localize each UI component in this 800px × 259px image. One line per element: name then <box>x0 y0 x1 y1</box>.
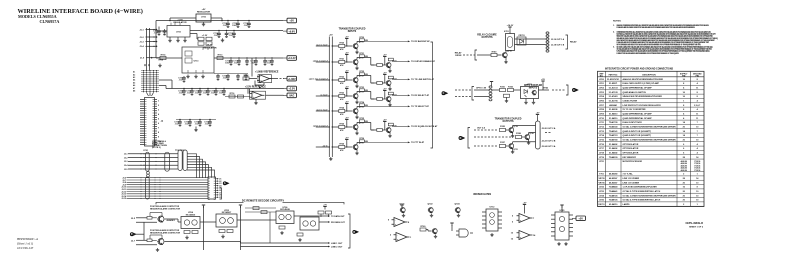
svg-text:OCTAL D-TYPE NONINVERTING LATC: OCTAL D-TYPE NONINVERTING LATCH <box>623 199 661 202</box>
svg-text:OPTOISOLATOR: OPTOISOLATOR <box>623 147 639 150</box>
power tap row 4 second stage <box>383 91 386 94</box>
wire into reference <box>252 78 257 80</box>
unused op-amp U709-D <box>394 233 410 242</box>
connector pin field vertical wires <box>143 70 145 93</box>
svg-text:OCTAL 3-STATE NONINVERTING BUF: OCTAL 3-STATE NONINVERTING BUFFER/LINE D… <box>623 194 677 197</box>
svg-text:2,3,6,7: 2,3,6,7 <box>694 105 701 107</box>
svg-text:51-84692: 51-84692 <box>609 143 618 146</box>
svg-text:+5V: +5V <box>536 113 540 115</box>
wire Q721A collector to connector <box>512 142 514 144</box>
opto input dashed wires <box>455 89 472 91</box>
svg-text:A3: A3 <box>133 76 135 79</box>
svg-text:REGULATOR: REGULATOR <box>204 46 217 49</box>
wire regulator row to flag <box>190 30 283 32</box>
svg-text:47K: 47K <box>340 98 344 101</box>
capacitor C716 <box>229 59 233 65</box>
node H big dot decode left <box>130 232 137 236</box>
components below U705 <box>219 230 225 233</box>
ferrite pill E703 <box>146 177 150 199</box>
power tap above R721 <box>345 55 348 58</box>
wire bypass rail to +2.5V flag <box>248 88 284 90</box>
resistor R732 collector <box>359 73 364 76</box>
capacitor pair between groups <box>147 171 150 177</box>
ground C714 C715 <box>221 38 224 42</box>
svg-text:65-84310: 65-84310 <box>609 203 618 206</box>
svg-text:DC REMOTE DECODE CIRCUITRY: DC REMOTE DECODE CIRCUITRY <box>242 199 284 203</box>
svg-text:6: 6 <box>158 123 159 125</box>
resistor R750 cluster below U704 <box>184 231 190 234</box>
svg-text:Q720: Q720 <box>529 133 534 135</box>
svg-text:Q722: Q722 <box>427 203 433 205</box>
svg-text:RELAY CLOSURE: RELAY CLOSURE <box>477 33 497 36</box>
svg-text:REGULATOR: REGULATOR <box>197 10 210 13</box>
svg-text:OCTAL 3-STATE NONINVERTING BUF: OCTAL 3-STATE NONINVERTING BUFFER/LINE D… <box>623 126 677 129</box>
row 3 link wire <box>357 74 371 76</box>
svg-text:TO PTT IN AT: TO PTT IN AT <box>411 141 425 144</box>
resistor R743 <box>377 97 383 100</box>
svg-text:17,38,56: 17,38,56 <box>694 170 700 172</box>
svg-text:TDA5740: TDA5740 <box>609 139 618 142</box>
wire relay drive <box>477 54 491 56</box>
svg-text:TDA8441: TDA8441 <box>609 190 618 193</box>
unused IC section U712 <box>486 209 498 231</box>
svg-text:+2.5V: +2.5V <box>288 88 295 91</box>
svg-text:KEY MEMORY: KEY MEMORY <box>623 157 637 159</box>
svg-text:MC145026: MC145026 <box>186 213 195 216</box>
resistor R752 collector 2 <box>388 76 393 79</box>
op-amp U702-C 2.5V reference <box>250 91 266 99</box>
svg-text:TDA5723: TDA5723 <box>609 134 618 137</box>
table microprocessor tall row <box>598 171 705 173</box>
wire bypass row riser <box>247 89 249 94</box>
node E big dot opto <box>442 91 449 95</box>
svg-text:R733: R733 <box>359 87 364 89</box>
wire 2.5V output <box>266 94 284 96</box>
svg-text:(NOTE 2): (NOTE 2) <box>152 147 161 149</box>
unused transistor Q721 <box>400 207 405 212</box>
resistor R746 <box>516 135 522 138</box>
svg-text:TDA8330: TDA8330 <box>609 156 618 159</box>
unused op-amp U710-B <box>517 231 533 240</box>
wire relay coil to transistor <box>505 51 507 53</box>
svg-text:A2: A2 <box>133 73 135 76</box>
svg-text:Q713: Q713 <box>359 92 364 94</box>
svg-text:OUTPUTS: OUTPUTS <box>482 37 493 39</box>
svg-text:+5V: +5V <box>541 79 545 81</box>
capacitor C719 <box>254 59 258 65</box>
ground Q715 <box>355 131 358 135</box>
svg-text:51-84692: 51-84692 <box>609 152 618 155</box>
row 6 output wire <box>389 125 391 128</box>
vertical link wire decode outputs <box>269 212 271 243</box>
resistor R725 <box>339 125 345 128</box>
resistor R714 <box>160 56 166 59</box>
connector J3 tall box <box>145 98 155 147</box>
transistor Q719 <box>508 127 513 132</box>
U711 top pins <box>170 23 172 26</box>
nested corner fanout wires <box>187 154 215 178</box>
resistor R731 collector <box>359 55 364 58</box>
resistor R755 collector 2 <box>388 123 393 126</box>
svg-text:R726: R726 <box>339 144 344 146</box>
bypass capacitor row C722-C727 <box>166 88 248 90</box>
svg-text:TX DATA OUT: TX DATA OUT <box>331 215 345 218</box>
svg-text:R736: R736 <box>359 138 364 140</box>
wire alarm2 bus <box>165 241 241 243</box>
transistor Q712 <box>353 77 358 82</box>
ground regulator <box>186 75 189 79</box>
capacitor C711 <box>236 22 240 28</box>
transistor Q720 <box>524 134 529 139</box>
svg-text:TDA1705: TDA1705 <box>609 121 618 124</box>
bracket relay outputs <box>566 35 568 49</box>
op-amp U702-B reference buffer <box>258 75 272 83</box>
line transformer T701 <box>178 150 182 171</box>
unused transistor Q724 <box>455 207 460 212</box>
power tap above R720 <box>345 39 348 42</box>
svg-text:U709: U709 <box>527 84 533 86</box>
svg-text:Q710: Q710 <box>359 42 364 44</box>
power +5V decode 2 <box>323 205 327 210</box>
resistor R723 <box>339 94 345 97</box>
svg-text:+14.2V: +14.2V <box>507 24 514 27</box>
svg-text:TO RX SQUELCH MUTE AT: TO RX SQUELCH MUTE AT <box>411 125 438 128</box>
svg-text:aux rx mute: aux rx mute <box>316 43 328 46</box>
power tap above R724 <box>345 104 348 107</box>
svg-text:17,38,56: 17,38,56 <box>694 168 700 170</box>
net flag +1.86V <box>283 76 297 81</box>
unused transistor Q722 <box>428 207 433 212</box>
svg-text:J3-15: J3-15 <box>121 198 126 200</box>
svg-text:UNUSED GATES: UNUSED GATES <box>473 193 492 196</box>
svg-text:SINGLE MULTIPLEXER/DEMULTIPLEX: SINGLE MULTIPLEXER/DEMULTIPLEXER <box>623 96 663 98</box>
svg-text:QUAD ANALOG SWITCH: QUAD ANALOG SWITCH <box>623 91 647 94</box>
line transformer T702 <box>183 150 187 171</box>
power +5V outputs <box>536 113 540 118</box>
svg-text:J2-16 OUT 1 A: J2-16 OUT 1 A <box>551 38 565 41</box>
wire reference output <box>270 78 277 80</box>
svg-text:rx mute: rx mute <box>320 93 328 96</box>
svg-text:TDA8726: TDA8726 <box>609 199 618 202</box>
alarm 1 feedback loop <box>161 213 163 216</box>
svg-text:9: 9 <box>158 137 159 139</box>
resistor R722 <box>339 78 345 81</box>
svg-text:+14.2V: +14.2V <box>206 44 213 47</box>
capacitor C714 <box>217 32 221 38</box>
svg-text:-: - <box>520 215 521 218</box>
output dashes right <box>545 132 552 134</box>
transistor Q731 alarm 2 detector <box>147 239 152 242</box>
input row 2 wire from connector <box>316 61 330 63</box>
bus bottom ground <box>329 157 332 161</box>
svg-text:51-85970C01: 51-85970C01 <box>607 79 620 81</box>
svg-text:TRANSISTOR COUPLED: TRANSISTOR COUPLED <box>339 28 366 31</box>
power tap row 6 second stage <box>383 122 386 125</box>
vertical rail decode 1 <box>203 206 205 250</box>
resistor R742 <box>377 81 383 84</box>
svg-text:47K: 47K <box>340 113 344 116</box>
net flag +2.5V <box>283 86 297 91</box>
transistor Q711 <box>353 59 358 64</box>
table outer frame <box>598 71 705 206</box>
svg-text:R740: R740 <box>492 50 497 53</box>
+5V regulator U710 <box>196 14 211 22</box>
svg-text:D INDUCTOR VALUES ARE IN MICRO: D INDUCTOR VALUES ARE IN MICROHENRIES FO… <box>617 52 679 55</box>
ground Q721 <box>388 69 391 73</box>
row 1 output wire <box>357 40 363 42</box>
svg-text:CODEC FILTER: CODEC FILTER <box>623 101 638 103</box>
svg-text:CLN6957A: CLN6957A <box>40 19 60 24</box>
resistor R716 R717 row <box>225 96 250 98</box>
row 3 output wire <box>389 78 391 81</box>
svg-text:aux tx mute: aux tx mute <box>316 108 328 111</box>
svg-text:51-84692: 51-84692 <box>609 147 618 150</box>
power to relay <box>507 24 514 30</box>
svg-text:J3-1: J3-1 <box>124 154 128 156</box>
svg-text:7: 7 <box>158 128 159 130</box>
wire R752 into U707 <box>320 214 322 217</box>
capacitor C715 <box>225 32 229 38</box>
svg-text:DRIVE: DRIVE <box>455 55 462 57</box>
svg-text:ALARM 1: ALARM 1 <box>167 219 177 222</box>
svg-text:U715: U715 <box>560 210 566 212</box>
ferrite pill E702 <box>165 152 170 171</box>
transistor Q713 <box>353 93 358 98</box>
svg-text:3: 3 <box>158 110 159 112</box>
svg-text:51-4C103: 51-4C103 <box>609 87 619 90</box>
svg-text:48-82567: 48-82567 <box>609 177 618 180</box>
row 2 link wire <box>357 56 371 58</box>
svg-text:OPTO 1 IN: OPTO 1 IN <box>476 88 487 90</box>
svg-text:R760: R760 <box>421 226 427 228</box>
svg-text:R723: R723 <box>339 93 344 95</box>
svg-text:TDA5140: TDA5140 <box>609 126 618 129</box>
svg-text:47K: 47K <box>340 149 344 152</box>
svg-text:spare aux rx mute 2: spare aux rx mute 2 <box>309 77 329 80</box>
svg-text:QUAD 2-INPUT OR (SCHMITT): QUAD 2-INPUT OR (SCHMITT) <box>623 134 652 137</box>
diode CR701 <box>517 37 526 45</box>
output row 2 dashed <box>474 136 513 138</box>
svg-text:DUAL CMOS SUPPLY (2 PER) OP AM: DUAL CMOS SUPPLY (2 PER) OP AMP <box>623 82 660 85</box>
input row 4 wire from connector <box>316 95 330 97</box>
capacitor C720 <box>182 76 186 82</box>
+9.6V regulator U711 <box>167 26 190 38</box>
row 2 output wire <box>389 60 391 63</box>
svg-text:QUAD DIFFERENTIAL OP AMP: QUAD DIFFERENTIAL OP AMP <box>623 117 653 120</box>
IC U704 decode <box>181 217 200 229</box>
unused transistor Q723 with resistor <box>420 228 426 231</box>
alarm 2 feedback loop <box>161 235 163 238</box>
bracket opto inputs <box>472 87 474 101</box>
net flag +9.6V <box>283 29 297 34</box>
audio pair wire group 2 <box>127 177 209 179</box>
resistor R724 <box>339 109 345 112</box>
svg-text:C: C <box>573 89 575 92</box>
capacitor C717 <box>237 59 241 65</box>
svg-text:LINE 2 OUT: LINE 2 OUT <box>331 247 343 249</box>
svg-text:47K: 47K <box>340 64 344 67</box>
resistor R735 collector <box>359 120 364 123</box>
svg-text:NO.: NO. <box>600 75 604 77</box>
ground below U704 <box>185 236 188 240</box>
transistor Q730 alarm 1 detector <box>147 217 152 220</box>
row 7 output wire <box>357 141 363 143</box>
input row 7 wire from connector <box>316 146 330 148</box>
svg-text:TO TX LINE SWITCH AT: TO TX LINE SWITCH AT <box>411 78 435 81</box>
svg-text:RX DATA OUT: RX DATA OUT <box>331 221 346 224</box>
opto ground <box>525 99 527 101</box>
svg-text:47K: 47K <box>340 48 344 51</box>
wire opto output <box>539 89 550 91</box>
svg-text:QUAD DIFFERENTIAL OP AMP: QUAD DIFFERENTIAL OP AMP <box>623 113 653 116</box>
svg-text:QUAD DIFFERENTIAL OP AMP: QUAD DIFFERENTIAL OP AMP <box>623 87 653 90</box>
wire Q720 collector to connector <box>528 133 530 135</box>
ground 2.5V divider <box>255 99 257 101</box>
svg-text:PART NO.: PART NO. <box>609 74 619 77</box>
resistor R741 <box>377 63 383 66</box>
svg-text:J2-24 OUT 3 A: J2-24 OUT 3 A <box>542 145 556 148</box>
ground unused U715 <box>557 242 560 246</box>
wire Q719 collector to connector <box>512 126 514 128</box>
node F big dot opto out <box>572 88 579 92</box>
svg-text:LINE 1.5V ZENER: LINE 1.5V ZENER <box>623 178 640 180</box>
ground Q713 <box>355 100 358 104</box>
transistor Q721A <box>508 143 513 148</box>
svg-text:HEPD39849C–A: HEPD39849C–A <box>16 237 38 241</box>
svg-text:J2-20 OUT 2 A: J2-20 OUT 2 A <box>542 127 556 130</box>
svg-text:48-82567: 48-82567 <box>609 181 618 184</box>
svg-text:A1: A1 <box>133 71 135 74</box>
svg-text:51-4C706: 51-4C706 <box>609 100 619 103</box>
row 4 link wire <box>357 90 371 92</box>
resistor R744 below <box>504 94 510 97</box>
svg-text:NEGATIVE ALARM 2 DETECTOR: NEGATIVE ALARM 2 DETECTOR <box>150 232 181 235</box>
svg-text:TDA8440: TDA8440 <box>609 186 618 189</box>
power +5V right of opto <box>541 79 545 84</box>
unused op-amp U710-A <box>517 214 533 223</box>
ground Q722 <box>388 87 391 91</box>
svg-text:A4: A4 <box>133 79 135 82</box>
svg-text:+5V: +5V <box>578 218 583 221</box>
resistor R741 <box>500 88 506 91</box>
ground Q721A <box>512 149 514 150</box>
svg-text:TO RX BACKUP AT: TO RX BACKUP AT <box>411 40 430 43</box>
transistor Q714 <box>353 108 358 113</box>
svg-text:J2-22 OUT 2 B: J2-22 OUT 2 B <box>542 141 556 143</box>
wire riser rail to op-amp <box>249 89 251 94</box>
net flag +14.2V <box>283 56 297 61</box>
power tap above R722 <box>345 73 348 76</box>
power tap above R723 <box>345 89 348 92</box>
svg-text:VR706: VR706 <box>598 182 605 184</box>
svg-text:R VALUES ARE IN OHMS CAPACITOR: R VALUES ARE IN OHMS CAPACITOR VALUES AR… <box>617 26 695 29</box>
ground Q723 <box>388 103 391 107</box>
ground Q716 <box>355 151 358 155</box>
ground Q712 <box>355 84 358 88</box>
svg-text:CEPS–39849–B: CEPS–39849–B <box>685 222 703 225</box>
interstage rows U705 to U706 <box>245 207 276 209</box>
svg-text:VR705: VR705 <box>598 178 605 180</box>
wire decode outputs <box>294 215 328 217</box>
capacitor C718 <box>245 59 249 65</box>
IC U706 decode <box>276 211 294 224</box>
ground alarm 2 op-amp <box>156 248 159 252</box>
svg-text:(Sheet 1 of 1): (Sheet 1 of 1) <box>17 242 33 246</box>
svg-text:Q712: Q712 <box>359 76 364 78</box>
unused IC section U715 <box>555 212 569 240</box>
wire regulator feed <box>158 27 160 30</box>
svg-text:+5V: +5V <box>329 34 333 36</box>
svg-text:MC145028: MC145028 <box>280 208 290 211</box>
svg-text:51-84510: 51-84510 <box>609 117 618 120</box>
wire opto feed <box>492 89 500 91</box>
svg-text:MC145027: MC145027 <box>222 211 231 214</box>
svg-text:DUAL D-INPUT NOR: DUAL D-INPUT NOR <box>623 121 643 124</box>
svg-text:RELAY: RELAY <box>570 41 577 44</box>
power tap row 3 second stage <box>383 75 386 78</box>
power tap row 2 second stage <box>383 57 386 60</box>
svg-text:+9.6V: +9.6V <box>288 30 295 33</box>
svg-text:10UF: 10UF <box>232 25 238 27</box>
wire riser from regulator input <box>155 21 157 59</box>
svg-text:OCTAL D-TYPE NONINVERTING LATC: OCTAL D-TYPE NONINVERTING LATCH <box>623 190 661 193</box>
svg-text:INPUTS: INPUTS <box>348 31 357 33</box>
svg-text:A7: A7 <box>133 87 135 90</box>
svg-text:51-80238: 51-80238 <box>609 109 618 111</box>
svg-text:LOW DROPOUT VOLTAGE REGULATOR: LOW DROPOUT VOLTAGE REGULATOR <box>623 104 662 107</box>
svg-text:+1.86V: +1.86V <box>288 78 296 81</box>
resistor R745 <box>377 128 383 131</box>
connector J3 pin stubs <box>140 99 145 101</box>
capacitor C715A <box>232 32 236 38</box>
svg-text:10UF: 10UF <box>225 63 231 65</box>
resistor R745 <box>500 128 506 131</box>
svg-text:DESCRIPTION: DESCRIPTION <box>642 75 656 77</box>
svg-text:51-4C105: 51-4C105 <box>609 91 619 94</box>
resistor R736 collector <box>359 140 364 143</box>
ground Q719 <box>512 133 514 134</box>
resistor R751 collector 2 <box>388 58 393 61</box>
svg-text:29: 29 <box>219 197 221 199</box>
relay drive transistor Q718 <box>502 52 507 57</box>
svg-text:R722: R722 <box>339 77 344 79</box>
wire second output to +1.2V block <box>190 33 197 35</box>
bracket right of transistor rows <box>431 42 433 148</box>
svg-text:-: - <box>520 232 521 235</box>
svg-text:Q716: Q716 <box>359 143 364 145</box>
bracket decode outputs <box>348 214 350 248</box>
transistor Q710 <box>353 43 358 48</box>
svg-text:TRANSISTOR COUPLED: TRANSISTOR COUPLED <box>495 117 522 120</box>
decoupling capacitor row C730-C733 <box>176 119 216 121</box>
connector pin field dense rows <box>141 70 159 72</box>
ground U711 pins <box>169 37 171 39</box>
transistor Q722 second stage <box>386 80 391 85</box>
svg-text:R730: R730 <box>359 37 364 39</box>
svg-text:47K: 47K <box>340 129 344 132</box>
arrow marks into pin field <box>144 65 150 67</box>
resistor R753 collector 2 <box>388 92 393 95</box>
svg-text:LINE 1 OUT: LINE 1 OUT <box>331 243 343 245</box>
transistor Q716 <box>353 144 358 149</box>
unused op-amp U709-C <box>392 218 408 227</box>
svg-text:R747: R747 <box>500 141 505 144</box>
transistor Q715 <box>353 124 358 129</box>
svg-text:-: - <box>397 234 398 237</box>
svg-text:LINE 1.5V ZENER: LINE 1.5V ZENER <box>623 182 640 184</box>
svg-text:+14.2V: +14.2V <box>288 57 296 60</box>
net flag +5V top <box>283 18 297 23</box>
